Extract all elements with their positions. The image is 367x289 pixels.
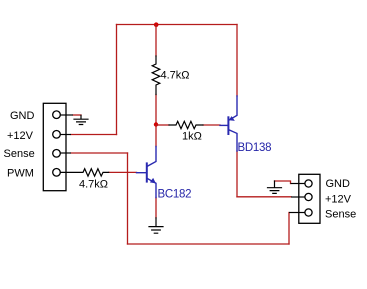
wire left +12V riser — [116, 25, 118, 135]
ground left connector — [74, 115, 88, 124]
wire collector to +12V pin right — [237, 196, 291, 198]
node B junction dot on top rail — [154, 22, 159, 27]
transistor Q1 BC182 NPN — [137, 147, 157, 198]
svg-text:GND: GND — [326, 178, 351, 190]
svg-text:BD138: BD138 — [238, 142, 272, 154]
svg-text:+12V: +12V — [325, 194, 352, 206]
wire node A to R2 — [156, 124, 169, 126]
wire R1 top (rail to resistor) — [155, 25, 157, 57]
wire BD138 emitter to rail — [236, 25, 238, 97]
svg-text:PWM: PWM — [7, 168, 34, 180]
wire BC182 emitter to ground — [155, 198, 157, 218]
wire R2 to BD138 base — [203, 124, 220, 126]
wire bottom rail sense — [128, 243, 290, 245]
node A junction dot — [154, 122, 158, 126]
svg-text:1kΩ: 1kΩ — [182, 131, 202, 143]
svg-text:BC182: BC182 — [158, 189, 192, 201]
transistor Q2 BD138 PNP — [220, 96, 237, 151]
svg-text:Sense: Sense — [4, 148, 35, 160]
ground right connector — [268, 181, 282, 193]
ground BC182 emitter — [149, 218, 163, 233]
svg-text:4.7kΩ: 4.7kΩ — [161, 70, 190, 82]
connector J2 right — [289, 174, 320, 223]
wire sense drop — [127, 153, 129, 244]
svg-text:4.7kΩ: 4.7kΩ — [79, 179, 108, 191]
wire R1 bottom to node A — [155, 95, 157, 147]
resistor R2 1k horizontal — [169, 121, 203, 128]
wire Sense pin left run — [71, 152, 128, 154]
wire right GND pin jog — [275, 181, 291, 184]
svg-text:+12V: +12V — [7, 130, 34, 142]
resistor R1 4.7k vertical — [152, 56, 160, 95]
svg-text:Sense: Sense — [325, 209, 356, 221]
wire PWM resistor to BC182 base — [109, 171, 137, 173]
wire BD138 collector down — [236, 151, 238, 197]
svg-text:GND: GND — [10, 110, 35, 122]
resistor R3 4.7k horizontal — [61, 169, 109, 176]
wire left GND pin stub — [73, 114, 81, 116]
connector J1 left — [43, 103, 73, 190]
wire sense rise right — [288, 213, 290, 245]
wire +12V pin to riser — [71, 134, 117, 136]
wire top rail +12V — [117, 24, 238, 26]
